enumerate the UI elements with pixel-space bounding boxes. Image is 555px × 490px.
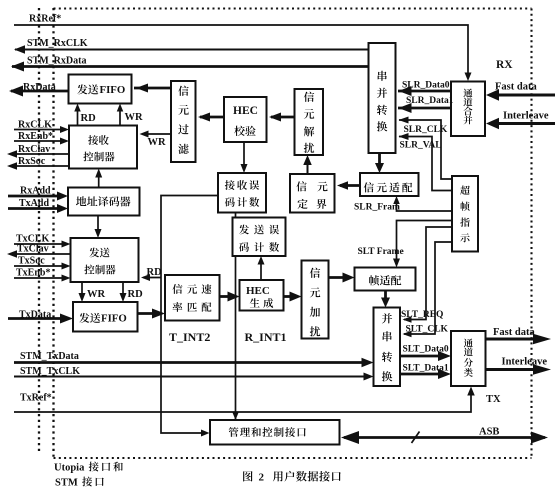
signal Fast data (TX) label: [493, 327, 535, 338]
wire: HEC-check to cell-filter (thick): [198, 113, 224, 122]
svg-text:Interleave: Interleave: [502, 357, 548, 368]
wire: rate-match to HEC-gen (thick): [220, 292, 240, 302]
wire: RD from management bus to send controller: [141, 274, 161, 281]
svg-text:T_INT2: T_INT2: [169, 330, 210, 344]
label RD: [81, 113, 97, 124]
block: cell rate match: [165, 275, 220, 321]
signal STM_RxData label: [27, 56, 86, 67]
svg-text:RD: RD: [81, 113, 97, 124]
wire: address decoder to send controller: [95, 216, 102, 239]
signal TxEnb* label: [16, 268, 50, 279]
wire: RxAdd line (thick): [8, 192, 68, 201]
svg-text:Utopia: Utopia: [54, 463, 85, 474]
wire: SLT_Frame from superframe to frame-adapt: [393, 221, 452, 268]
signal SLR_CLK label: [404, 125, 448, 135]
wire: cell-adapt to cell-delimit (thick): [337, 181, 360, 190]
signal SLR_VAL label: [400, 141, 442, 151]
boundary: dotted frame top: [54, 7, 532, 9]
wire: cell-scramble to frame-adapt (thick): [329, 273, 355, 283]
svg-text:2: 2: [259, 472, 265, 484]
svg-text:TxRef*: TxRef*: [20, 393, 52, 404]
wire: cell-delimit up to cell-descramble: [303, 155, 312, 174]
block: address decoder: [68, 188, 140, 216]
caption: STM interface: [55, 477, 104, 489]
svg-text:SLT Frame: SLT Frame: [358, 247, 404, 257]
svg-text:WR: WR: [148, 137, 167, 148]
block: cell filter: [171, 81, 196, 162]
label TX: [486, 394, 501, 405]
wire: STM_TxData line (thick): [14, 358, 374, 368]
wire: management control bus (vertical x=161 with branches): [161, 196, 218, 437]
caption: figure 2 user data interface: [243, 471, 341, 484]
label WR: [87, 289, 106, 300]
label RX: [496, 59, 513, 71]
block: HEC check: [224, 97, 267, 142]
svg-text:R_INT1: R_INT1: [245, 330, 287, 344]
svg-text:SLR_CLK: SLR_CLK: [404, 125, 448, 135]
svg-text:Fast data: Fast data: [493, 327, 535, 338]
wire: TxAdd line (thick): [8, 204, 68, 213]
wire: TxData line (thick): [8, 314, 73, 324]
wire: TxEnb* line: [14, 275, 71, 282]
block: serial-parallel converter: [369, 43, 396, 153]
wire: cell-descramble to HEC-check (thick): [269, 113, 295, 122]
label RD (management read): [147, 267, 163, 278]
svg-text:Fast data: Fast data: [495, 82, 537, 93]
wire: SLR_Frame from superframe to cell-adapt: [393, 196, 452, 211]
block: parallel-serial converter: [374, 308, 401, 387]
wire: address decoder to receive controller: [95, 169, 102, 188]
wire: STM_RxCLK line: [14, 45, 369, 54]
signal STM_TxData label: [20, 351, 79, 362]
wire: RxEnb* line: [14, 138, 69, 145]
signal TxClav label: [17, 244, 49, 255]
svg-text:RD: RD: [147, 267, 163, 278]
signal SLT_Data0 label: [403, 345, 449, 355]
signal SLR_Data1 label: [406, 96, 454, 106]
wire: TxRef* line to channel-classify: [14, 387, 475, 413]
wire: SLR_Data0 (thick): [398, 86, 451, 96]
boundary: Utopia interface dotted line (left inner): [52, 8, 54, 458]
label R_INT1: [245, 330, 287, 344]
wire: HEC-gen up to send error counter: [258, 256, 265, 280]
svg-text:WR: WR: [125, 112, 144, 123]
signal RxEnb* label: [18, 131, 53, 142]
block: HEC generate: [240, 280, 284, 311]
wire: STM_RxData line (thick): [11, 62, 369, 72]
wire: Interleave TX output (thick): [486, 364, 552, 375]
svg-text:TxEnb*: TxEnb*: [16, 268, 50, 279]
signal Interleave (RX) label: [503, 111, 549, 122]
label ASB: [479, 427, 499, 438]
label RD: [128, 289, 144, 300]
signal Fast data (RX) label: [495, 82, 537, 93]
block: send FIFO (RX side): [69, 75, 132, 104]
signal STM_RxCLK label: [27, 38, 88, 49]
block: cell scramble: [302, 261, 329, 339]
signal SLT_REQ label: [401, 310, 443, 320]
wire: Fast data RX input (thick): [486, 89, 555, 101]
wire: WR from cell-filter to receive controller: [140, 131, 172, 138]
wire: SLR_Data1 (thick): [398, 103, 451, 113]
block: receive error counter: [218, 173, 266, 213]
signal RxClav label: [18, 144, 50, 155]
block: superframe indicator: [452, 176, 478, 252]
svg-text:SLR_Data1: SLR_Data1: [406, 96, 454, 106]
wire: SLR_VAL to superframe: [399, 133, 453, 191]
svg-text:SLR_Fram: SLR_Fram: [354, 203, 400, 213]
svg-text:HEC: HEC: [246, 285, 270, 297]
label T_INT2: [169, 330, 210, 344]
svg-text:RD: RD: [128, 289, 144, 300]
svg-text:STM_RxData: STM_RxData: [27, 56, 86, 67]
svg-text:SLT_REQ: SLT_REQ: [401, 310, 443, 320]
signal Interleave (TX) label: [502, 357, 548, 368]
svg-text:SLT_CLK: SLT_CLK: [406, 325, 449, 335]
signal TxRef* label: [20, 393, 52, 404]
wire: RxClav line: [7, 150, 69, 158]
wire: error-counter to management bus (vertical x=235.5): [232, 213, 239, 421]
boundary: dotted frame right: [530, 9, 532, 459]
wire: SLT_Data1 (thick): [400, 369, 451, 379]
signal TxData label: [19, 310, 51, 321]
wire: Fast data TX output (thick): [486, 334, 552, 345]
svg-text:Interleave: Interleave: [503, 111, 549, 122]
signal RxSoc label: [18, 156, 46, 167]
wire: TxCLK line: [14, 241, 71, 248]
signal SLT Frame label: [358, 247, 404, 257]
block: receive controller: [69, 126, 137, 169]
block: send error counter: [233, 218, 286, 257]
svg-text:RX: RX: [496, 59, 513, 71]
signal RxAdd label: [20, 186, 51, 197]
svg-text:TX: TX: [486, 394, 501, 405]
wire: RD read arrow FIFO: [74, 104, 81, 126]
wire: RxRef* line to channel-merge: [14, 25, 472, 81]
block: cell descramble: [295, 89, 324, 155]
svg-text:RxRef*: RxRef*: [29, 14, 61, 25]
svg-text:STM: STM: [55, 478, 78, 489]
block: send controller: [71, 238, 139, 282]
signal SLT_Data1 label: [403, 364, 449, 374]
signal SLR_Fram label: [354, 203, 400, 213]
svg-text:STM_RxCLK: STM_RxCLK: [27, 38, 88, 49]
label WR (cell filter write): [148, 137, 167, 148]
wire: send FIFO to cell-rate-match (thick): [138, 309, 166, 319]
wire: TxClav line: [7, 250, 71, 258]
wire: frame-adapt down to parallel-serial (thick): [381, 291, 390, 308]
svg-text:FIFO: FIFO: [101, 313, 127, 325]
block: channel merge: [451, 82, 485, 137]
wire: TxSoc line: [14, 263, 71, 270]
wire: SLR_CLK to superframe: [399, 117, 453, 180]
wire: RxSoc line: [7, 162, 69, 170]
wire: Interleave RX input (thick): [486, 118, 555, 130]
wire: HEC-gen to cell-scramble (thick): [284, 292, 302, 302]
block: cell delimitation: [290, 174, 335, 213]
wire: WR write arrow FIFO: [117, 104, 124, 126]
svg-text:SLR_VAL: SLR_VAL: [400, 141, 442, 151]
svg-text:TxClav: TxClav: [17, 244, 49, 255]
wire: STM_TxCLK line: [14, 373, 374, 381]
wire: ASB bus (double arrow, thick): [341, 431, 548, 444]
signal SLR_Data0 label: [402, 81, 450, 91]
wire: serial-parallel down to cell-adapt (thick): [375, 153, 384, 173]
signal STM_TxCLK label: [20, 366, 80, 377]
svg-text:FIFO: FIFO: [100, 84, 126, 96]
signal RxData label: [23, 82, 56, 93]
svg-text:ASB: ASB: [479, 427, 499, 438]
block: send FIFO (TX side): [73, 302, 138, 332]
svg-text:TxSoc: TxSoc: [18, 256, 45, 267]
boundary: dotted frame bottom: [54, 457, 532, 459]
label WR: [125, 112, 144, 123]
wire: RxCLK line: [14, 126, 69, 133]
wire: SLT_Data0 (thick): [400, 351, 451, 361]
block: frame adaptation: [355, 268, 416, 291]
svg-text:WR: WR: [87, 289, 106, 300]
block: channel classify: [451, 331, 486, 386]
wire: SLT_CLK from superframe to parallel-serial: [403, 242, 453, 337]
wire: SLT_REQ from superframe to parallel-serial: [403, 227, 453, 323]
block: cell adaptation: [360, 173, 419, 196]
signal TxAdd label: [19, 198, 49, 209]
svg-text:STM_TxCLK: STM_TxCLK: [20, 366, 80, 377]
signal RxCLK label: [18, 120, 52, 131]
wire: RxData output line (thick): [9, 86, 69, 97]
svg-text:STM_TxData: STM_TxData: [20, 351, 79, 362]
signal TxCLK label: [16, 234, 50, 245]
signal RxRef* label: [29, 14, 61, 25]
signal SLT_CLK label: [406, 325, 449, 335]
wire: cell-filter to send FIFO (thick): [134, 84, 171, 93]
caption: Utopia interface and: [54, 462, 123, 474]
boundary: Utopia interface dotted line (left outer): [38, 8, 40, 451]
block: management and control interface: [210, 420, 340, 445]
signal TxSoc label: [18, 256, 45, 267]
wire: WR send controller to FIFO: [79, 282, 86, 302]
svg-text:HEC: HEC: [233, 105, 258, 117]
wire: HEC-check down to rx error counter: [241, 142, 248, 173]
wire: RD send controller to FIFO: [120, 282, 127, 302]
